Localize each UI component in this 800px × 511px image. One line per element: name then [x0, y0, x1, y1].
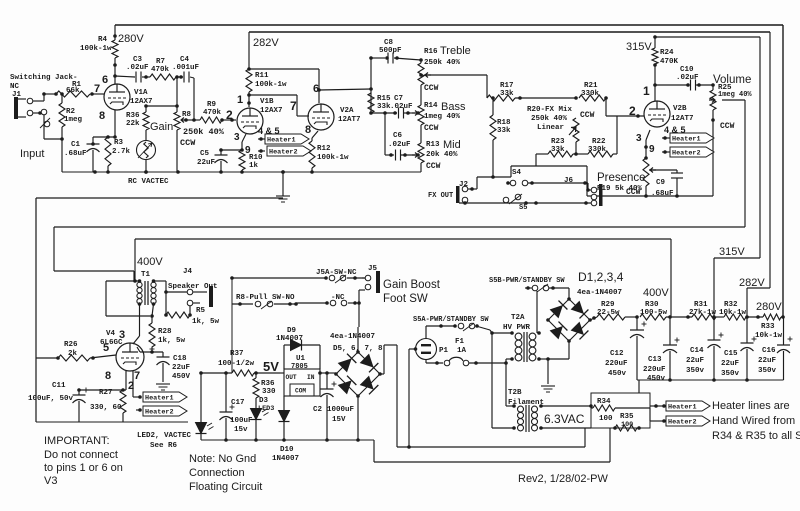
svg-text:7805: 7805 — [291, 363, 308, 371]
svg-text:C16: C16 — [762, 347, 776, 355]
svg-text:.001uF: .001uF — [172, 64, 200, 72]
wire V2B grid — [606, 98, 644, 118]
label C9 — [651, 179, 674, 198]
wire V2B cathode — [644, 130, 650, 158]
svg-text:C3: C3 — [133, 56, 143, 64]
wire footswitch left drop — [231, 278, 233, 373]
label C18 — [172, 355, 191, 381]
svg-text:LED2, VACTEC: LED2, VACTEC — [137, 432, 192, 440]
label 315V mid — [719, 246, 745, 258]
wire T2B to R35 — [541, 427, 591, 429]
wire J5 to NC — [357, 290, 365, 305]
label R21 — [581, 82, 600, 98]
svg-text:C14: C14 — [690, 347, 704, 355]
resistor R29 — [592, 314, 639, 320]
transformer T1 — [135, 271, 156, 306]
svg-text:22uF: 22uF — [686, 357, 705, 365]
svg-text:6.3VAC: 6.3VAC — [544, 412, 585, 426]
label R3 — [112, 139, 131, 156]
label 400V left — [137, 256, 163, 268]
label R35 — [620, 413, 634, 429]
svg-text:Do not connect: Do not connect — [44, 449, 118, 461]
label Volume — [713, 74, 751, 86]
svg-text:1N4007: 1N4007 — [272, 455, 299, 463]
svg-text:R23: R23 — [551, 138, 565, 146]
svg-text:R7: R7 — [156, 58, 165, 66]
svg-text:S5A-PWR/STANDBY SW: S5A-PWR/STANDBY SW — [413, 316, 489, 324]
svg-text:FX OUT: FX OUT — [428, 192, 453, 200]
label R16 value — [424, 59, 461, 93]
svg-text:22-5w: 22-5w — [597, 309, 620, 317]
svg-text:CCW: CCW — [580, 111, 595, 120]
svg-text:1meg: 1meg — [64, 116, 83, 124]
svg-text:Treble: Treble — [440, 45, 471, 57]
wire bridge14 to R29 — [590, 317, 597, 320]
svg-text:C7: C7 — [394, 95, 403, 103]
resistor R34 — [589, 404, 650, 411]
svg-text:.02uF: .02uF — [676, 74, 699, 82]
label Mid — [443, 139, 461, 151]
svg-text:R24: R24 — [660, 49, 674, 57]
label heater note — [712, 400, 800, 442]
label C7 — [390, 95, 413, 111]
svg-text:V1B: V1B — [260, 98, 274, 106]
svg-text:Heater lines are: Heater lines are — [712, 400, 790, 412]
label C10 — [676, 66, 699, 82]
svg-text:S4: S4 — [512, 169, 522, 177]
transformer T2A — [510, 331, 541, 362]
svg-text:330: 330 — [262, 388, 276, 396]
resistor R17 — [487, 95, 576, 101]
label R8 value — [180, 127, 225, 148]
svg-text:V3: V3 — [44, 475, 57, 487]
capacitor C13 — [663, 317, 680, 380]
svg-text:R11: R11 — [255, 72, 269, 80]
box R34 R35 — [591, 393, 650, 428]
svg-text:100-1/2w: 100-1/2w — [218, 360, 255, 368]
svg-text:R14: R14 — [424, 102, 438, 110]
svg-text:2: 2 — [629, 104, 636, 118]
label P1 — [439, 347, 449, 355]
svg-text:V1A: V1A — [134, 89, 148, 97]
label R38 — [261, 380, 276, 396]
pin 2 V2B — [629, 104, 636, 118]
label D10 — [272, 446, 299, 463]
led LED2 — [196, 373, 214, 440]
svg-text:R18: R18 — [497, 119, 511, 127]
resistor R1 — [54, 91, 104, 97]
svg-text:220uF: 220uF — [643, 366, 666, 374]
jack J2 — [456, 181, 469, 203]
wire cap gnd rail — [637, 378, 784, 382]
capacitor C2 — [321, 373, 337, 440]
ground C18 — [156, 384, 170, 390]
svg-text:Gain Boost: Gain Boost — [383, 279, 441, 291]
resistor R22 — [573, 116, 617, 157]
svg-text:9: 9 — [649, 144, 655, 155]
label T2A — [503, 314, 531, 332]
led LED3 — [251, 398, 269, 440]
switch S4 — [506, 169, 588, 186]
wire bridge58 left — [335, 373, 337, 375]
label note floating — [189, 453, 262, 493]
wire treble wiper — [424, 75, 487, 98]
svg-text:T1: T1 — [141, 271, 151, 279]
svg-text:V2B: V2B — [673, 105, 687, 113]
resistor R10 — [239, 150, 245, 172]
svg-text:Heater1: Heater1 — [672, 136, 701, 144]
label 4and5 V2B — [664, 125, 686, 135]
wire T1 primary to plate — [133, 304, 140, 344]
label R31 — [689, 301, 717, 317]
svg-text:330k: 330k — [588, 146, 607, 154]
label C2 — [313, 406, 355, 424]
capacitor C18 — [150, 347, 170, 383]
switch R8 pull — [232, 301, 298, 309]
svg-text:2k: 2k — [68, 350, 78, 358]
wire bridge58 ac top — [357, 351, 359, 353]
label Gain — [150, 121, 173, 133]
svg-text:C2: C2 — [313, 406, 323, 414]
svg-text:1meg 40%: 1meg 40% — [718, 91, 752, 99]
label T2B — [508, 389, 544, 407]
wire 282V right edge — [747, 32, 770, 316]
label R16 — [424, 48, 438, 56]
resistor R11 — [246, 69, 252, 107]
label F1 — [455, 338, 467, 355]
svg-text:R31: R31 — [694, 301, 708, 309]
svg-text:1: 1 — [643, 84, 650, 98]
label R19 — [597, 185, 643, 197]
svg-text:D1,2,3,4: D1,2,3,4 — [578, 270, 624, 284]
resistor R38 330 — [253, 373, 259, 398]
capacitor C17 — [220, 373, 235, 440]
svg-text:See R6: See R6 — [150, 442, 178, 450]
svg-text:1: 1 — [237, 94, 243, 106]
label R29 — [597, 301, 620, 317]
svg-text:D9: D9 — [287, 327, 297, 335]
svg-text:C6: C6 — [393, 132, 403, 140]
wire volume wiper down — [722, 100, 745, 227]
svg-text:F1: F1 — [455, 338, 465, 346]
wire 282V box left — [248, 32, 250, 69]
svg-text:R35: R35 — [620, 413, 634, 421]
svg-text:1000uF: 1000uF — [327, 406, 355, 414]
svg-text:R30: R30 — [645, 301, 659, 309]
svg-text:R21: R21 — [584, 82, 598, 90]
svg-text:J5A-SW-NC: J5A-SW-NC — [316, 269, 357, 277]
wire 315V jog — [714, 37, 760, 316]
wire NC to bridge — [358, 303, 359, 352]
pin 7 V1A — [94, 83, 100, 95]
potentiometer R25 volume — [709, 83, 716, 196]
svg-text:8: 8 — [105, 370, 111, 382]
label C11 — [28, 382, 74, 403]
svg-text:R26: R26 — [64, 341, 78, 349]
svg-text:R10: R10 — [249, 154, 263, 162]
svg-text:CCW: CCW — [424, 84, 439, 93]
jack J6 — [564, 177, 603, 206]
wire switch to T2A — [490, 330, 512, 335]
svg-text:33k: 33k — [377, 103, 391, 111]
svg-text:3: 3 — [234, 132, 240, 143]
wire V4 cathode row — [77, 371, 126, 392]
label D5-8 — [330, 333, 383, 353]
label J5A-SW-NC — [316, 269, 357, 277]
svg-text:280V: 280V — [118, 33, 144, 45]
potentiometer R8 — [174, 112, 188, 172]
svg-text:282V: 282V — [253, 37, 279, 49]
svg-text:RC VACTEC: RC VACTEC — [128, 178, 169, 186]
tube V2B — [644, 101, 670, 127]
label Gain Boost — [383, 279, 441, 305]
label R34 — [597, 398, 613, 423]
wire T2B to R34 — [541, 405, 591, 407]
capacitor C15 — [741, 317, 757, 380]
switch S5A — [426, 323, 490, 331]
svg-text:CCW: CCW — [426, 162, 441, 171]
svg-text:C17: C17 — [231, 399, 245, 407]
svg-text:Foot SW: Foot SW — [383, 293, 428, 305]
resistor R30 — [640, 314, 692, 320]
label 6.3VAC — [544, 412, 585, 426]
label C3 — [126, 56, 149, 72]
label 400V right — [643, 287, 669, 299]
wire T2A sec top — [536, 291, 538, 333]
svg-text:250k 40%: 250k 40% — [424, 59, 461, 67]
svg-text:5: 5 — [103, 342, 109, 354]
svg-text:Gain: Gain — [150, 121, 173, 133]
flag heater1 right — [650, 401, 710, 412]
flag heater2 right — [650, 408, 710, 427]
svg-text:350v: 350v — [686, 367, 705, 375]
svg-text:COM: COM — [295, 388, 306, 395]
label R33 — [755, 323, 783, 340]
svg-text:Floating Circuit: Floating Circuit — [189, 481, 262, 493]
svg-text:C4: C4 — [180, 56, 190, 64]
label C4 — [172, 56, 200, 72]
svg-text:100: 100 — [599, 415, 613, 423]
svg-text:33k: 33k — [497, 127, 511, 135]
svg-text:6: 6 — [102, 74, 108, 86]
flag heater1 V2B — [662, 133, 714, 144]
svg-text:C1: C1 — [71, 141, 81, 149]
label R13 value — [426, 151, 458, 171]
label Rev2 — [518, 473, 608, 485]
resistor R15 — [368, 93, 374, 115]
wire fx send — [511, 154, 587, 177]
label C12 — [605, 350, 628, 378]
svg-text:R27: R27 — [99, 389, 113, 397]
label D9 — [276, 327, 303, 343]
wire stack mid — [371, 111, 397, 115]
label C8 — [379, 39, 402, 55]
pin 1 V2B — [643, 84, 650, 98]
svg-text:V4: V4 — [106, 330, 116, 338]
flag heater2 V1B — [258, 146, 311, 157]
resistor R37 — [199, 370, 280, 376]
svg-text:22uF: 22uF — [721, 360, 740, 368]
svg-text:C18: C18 — [173, 355, 187, 363]
svg-text:NC: NC — [10, 83, 20, 91]
svg-text:D10: D10 — [280, 446, 294, 454]
svg-text:R12: R12 — [317, 145, 331, 153]
svg-text:R32: R32 — [724, 301, 738, 309]
wire 280V top rail — [115, 24, 783, 26]
svg-text:Bass: Bass — [441, 101, 466, 113]
wire R7 junction down — [175, 77, 179, 112]
svg-text:R34: R34 — [597, 398, 611, 406]
label V1B — [260, 98, 283, 115]
label C14 — [686, 347, 705, 375]
svg-text:C13: C13 — [648, 356, 662, 364]
label V1A — [130, 89, 153, 106]
wire signal bus left — [54, 227, 134, 281]
tube V1A — [104, 84, 130, 110]
label -NC — [331, 294, 345, 302]
tube V1B — [237, 108, 263, 134]
svg-text:C12: C12 — [610, 350, 624, 358]
capacitor C9 — [649, 170, 683, 198]
transformer T2B — [512, 404, 543, 432]
capacitor C1 — [87, 137, 100, 172]
svg-text:22uF: 22uF — [172, 364, 191, 372]
label R20 — [527, 106, 573, 132]
svg-text:450V: 450V — [172, 373, 191, 381]
label R9 — [203, 101, 222, 117]
svg-text:C8: C8 — [384, 39, 394, 47]
svg-text:R5: R5 — [196, 307, 206, 315]
svg-text:S5: S5 — [519, 204, 527, 212]
svg-text:Heater2: Heater2 — [145, 409, 174, 417]
svg-text:27k-1w: 27k-1w — [689, 309, 717, 317]
svg-text:Heater1: Heater1 — [145, 395, 174, 403]
label C16 — [758, 347, 777, 375]
svg-text:22uF: 22uF — [197, 159, 216, 167]
svg-text:1A: 1A — [457, 347, 467, 355]
wire fx bottom rail — [459, 201, 591, 205]
capacitor C5 — [215, 150, 228, 172]
pin 1 V1B — [237, 94, 243, 106]
svg-text:5V: 5V — [263, 359, 279, 374]
svg-text:282V: 282V — [739, 277, 765, 289]
svg-text:400V: 400V — [137, 256, 163, 268]
svg-text:66k: 66k — [66, 87, 80, 95]
wire V2A plate to stack — [319, 56, 373, 113]
resistor R24 — [652, 37, 658, 101]
flag heater2 V4 — [143, 406, 187, 417]
label R5 — [192, 307, 220, 326]
wire V2A plate feed — [249, 69, 321, 103]
svg-text:470k: 470k — [151, 66, 170, 74]
capacitor C3 — [115, 72, 150, 83]
potentiometer R16 treble — [418, 58, 431, 105]
flag heater1 V1B — [258, 134, 309, 145]
wire R18 to fx — [491, 140, 495, 179]
wire caps to heater box — [638, 380, 640, 393]
label RC VACTEC — [128, 178, 169, 186]
svg-text:2: 2 — [226, 108, 233, 122]
label Input — [20, 148, 44, 160]
capacitor C4 — [177, 72, 194, 83]
svg-text:R4: R4 — [98, 36, 108, 44]
label 280V right — [756, 301, 782, 313]
label C1 — [64, 141, 87, 158]
svg-text:.68uF: .68uF — [64, 150, 87, 158]
wire 400V bus right — [670, 239, 672, 316]
svg-text:450v: 450v — [647, 375, 666, 383]
label R26 — [64, 341, 78, 358]
svg-text:1k, 5w: 1k, 5w — [158, 337, 186, 345]
pin 8 V2A — [305, 124, 311, 136]
svg-text:R22: R22 — [592, 138, 606, 146]
svg-text:CCW: CCW — [424, 124, 439, 133]
vactec R6 — [137, 141, 156, 174]
wire 280V right edge — [782, 25, 784, 316]
resistor R3 — [105, 137, 111, 172]
wire T1 bracket — [106, 279, 150, 316]
svg-text:500pF: 500pF — [379, 47, 402, 55]
wire 282V box top — [249, 31, 770, 33]
label R28 — [158, 328, 186, 345]
diode D9 — [284, 340, 320, 370]
svg-text:10k-1w: 10k-1w — [755, 332, 783, 340]
plug P1 — [414, 326, 437, 360]
pin 7 V4 — [134, 370, 140, 382]
jack J1 — [12, 91, 33, 119]
label Treble — [440, 45, 471, 57]
svg-text:Hand Wired from: Hand Wired from — [712, 415, 795, 427]
bridge rectifier D5-8 — [334, 350, 382, 398]
svg-text:HV PWR: HV PWR — [503, 324, 531, 332]
label R4 — [80, 36, 112, 53]
svg-text:1meg 40%: 1meg 40% — [424, 113, 461, 121]
svg-text:15V: 15V — [332, 416, 346, 424]
capacitor C12 — [630, 317, 647, 380]
svg-text:R20-FX Mix: R20-FX Mix — [527, 106, 573, 114]
svg-text:C9: C9 — [656, 179, 666, 187]
resistor R7 — [150, 74, 179, 80]
wire T2B bottom left — [492, 427, 514, 429]
svg-text:CCW: CCW — [180, 138, 196, 148]
label R13 — [426, 141, 440, 149]
svg-text:315V: 315V — [719, 246, 745, 258]
svg-text:33k: 33k — [500, 90, 514, 98]
pin 3 V1B — [234, 132, 240, 143]
resistor R35 — [613, 425, 641, 431]
resistor R32 — [716, 314, 760, 320]
svg-text:to pins 1 or 6 on: to pins 1 or 6 on — [44, 462, 123, 474]
svg-text:D5, 6, 7, 8: D5, 6, 7, 8 — [333, 345, 383, 353]
svg-text:100-5w: 100-5w — [640, 309, 668, 317]
label R20 ccw — [580, 111, 595, 120]
pin 9 V2B — [649, 144, 655, 155]
label C15 — [721, 350, 740, 378]
svg-text:Mid: Mid — [443, 139, 461, 151]
resistor R33 — [746, 314, 785, 320]
wire NC down — [44, 115, 64, 141]
svg-text:7: 7 — [94, 83, 100, 95]
label R22 — [588, 138, 607, 154]
svg-text:R8: R8 — [182, 111, 192, 119]
svg-text:3: 3 — [119, 329, 125, 341]
svg-text:V2A: V2A — [340, 107, 354, 115]
svg-text:Heater2: Heater2 — [668, 419, 697, 427]
svg-text:7: 7 — [290, 99, 297, 113]
resistor R12 — [309, 141, 315, 174]
label IMPORTANT — [44, 435, 123, 487]
label C17 — [230, 399, 253, 434]
